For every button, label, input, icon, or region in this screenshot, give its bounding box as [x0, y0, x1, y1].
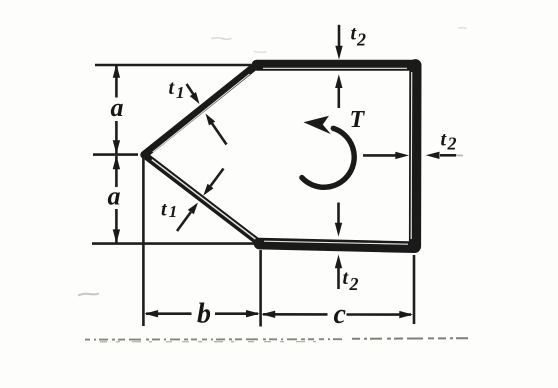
svg-text:t: t [161, 199, 168, 221]
svg-text:2: 2 [447, 134, 457, 154]
svg-text:c: c [334, 299, 347, 330]
svg-text:b: b [197, 298, 211, 329]
svg-text:t: t [169, 77, 176, 99]
svg-text:a: a [111, 93, 124, 122]
svg-text:t: t [343, 267, 350, 289]
svg-text:1: 1 [169, 202, 178, 221]
svg-text:t: t [441, 129, 448, 151]
svg-text:2: 2 [349, 274, 359, 294]
svg-text:a: a [108, 182, 121, 211]
svg-text:T: T [350, 107, 366, 133]
svg-text:1: 1 [176, 83, 185, 102]
svg-text:2: 2 [356, 29, 366, 49]
